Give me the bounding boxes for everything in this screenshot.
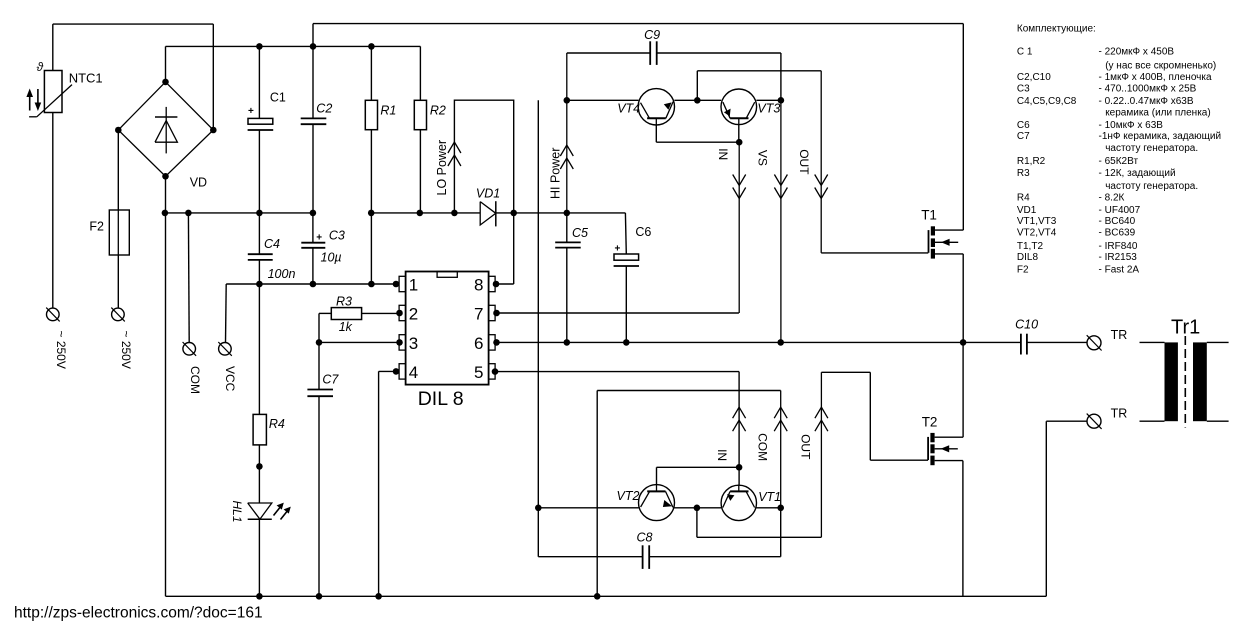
capacitor C10 bbox=[1021, 334, 1027, 355]
svg-text:- UF4007: - UF4007 bbox=[1099, 205, 1141, 216]
wire bottom rail bbox=[166, 595, 1047, 597]
wire C3 top lead bbox=[312, 213, 314, 243]
svg-text:+: + bbox=[248, 106, 254, 117]
svg-text:F2: F2 bbox=[1017, 264, 1029, 275]
svg-text:4: 4 bbox=[409, 363, 418, 382]
wire VD1 cathode rail bbox=[496, 212, 626, 214]
svg-text:1k: 1k bbox=[339, 320, 353, 334]
wire C4 top lead bbox=[258, 213, 260, 254]
node pin5 node bbox=[492, 368, 499, 375]
wire VD1 out to pin8 bbox=[495, 283, 514, 285]
svg-text:- IR2153: - IR2153 bbox=[1099, 252, 1138, 263]
svg-text:Комплектующие:: Комплектующие: bbox=[1017, 24, 1096, 35]
wire OUT bottom bus bbox=[697, 536, 822, 538]
node VT2 left node bbox=[535, 505, 542, 512]
wire T2 source wire bbox=[935, 460, 963, 462]
transistor VT2 bbox=[639, 485, 675, 521]
wire VCC rail bbox=[371, 212, 480, 214]
node bridge bottom bbox=[162, 173, 169, 180]
wire C7 top lead bbox=[318, 342, 320, 389]
U1 pin 3 bbox=[399, 334, 418, 353]
wire R3 drop to pin3 node bbox=[318, 313, 320, 342]
svg-text:C8: C8 bbox=[637, 530, 653, 544]
wire bridge bottom lead bbox=[165, 176, 167, 213]
svg-text:керамика (или пленка): керамика (или пленка) bbox=[1105, 108, 1211, 119]
node VCC C4 tap bbox=[256, 281, 263, 288]
VS arrows bbox=[774, 175, 787, 199]
wire VT3 base drop bbox=[738, 125, 740, 142]
transistor VT3 bbox=[721, 89, 757, 125]
wire VCC node bus bbox=[226, 283, 399, 285]
svg-text:Tr1: Tr1 bbox=[1171, 317, 1200, 339]
wire COM terminal riser bbox=[187, 213, 190, 343]
node HV+ C1 tap bbox=[256, 43, 263, 50]
svg-text:1: 1 bbox=[409, 276, 418, 295]
wire pin3 wire bbox=[319, 341, 399, 343]
svg-text:+: + bbox=[615, 244, 621, 255]
svg-text:6: 6 bbox=[474, 334, 483, 353]
svg-text:8: 8 bbox=[474, 276, 483, 295]
node VCC R1 branch tap bbox=[368, 281, 375, 288]
svg-text:HL1: HL1 bbox=[230, 501, 244, 523]
svg-text:- Fast 2A: - Fast 2A bbox=[1099, 264, 1140, 275]
wire R4 bottom lead bbox=[258, 445, 260, 503]
svg-text:NTC1: NTC1 bbox=[69, 71, 103, 86]
svg-text:ϑ: ϑ bbox=[37, 60, 44, 74]
wire R1 to VCC node bbox=[370, 213, 372, 284]
wire pin4 link bbox=[379, 370, 400, 372]
svg-text:T2: T2 bbox=[922, 414, 938, 429]
node bridge right bbox=[210, 127, 217, 134]
node rail C5 tap bbox=[564, 210, 571, 217]
wire VT2-VT1 base link bbox=[657, 466, 740, 468]
capacitor C6 bbox=[614, 244, 639, 267]
node HV+ C2 tap bbox=[310, 43, 317, 50]
node rail HL1 tap bbox=[256, 593, 263, 600]
svg-text:- 1мкФ х 400В, пленочка: - 1мкФ х 400В, пленочка bbox=[1099, 72, 1212, 83]
wire C1 bottom lead bbox=[258, 130, 260, 213]
U1 pin 2 bbox=[399, 305, 418, 324]
U1 pin 4 bbox=[399, 363, 418, 382]
svg-text:- IRF840: - IRF840 bbox=[1099, 241, 1138, 252]
wire AC top link bbox=[53, 23, 214, 25]
svg-text:R2: R2 bbox=[430, 104, 446, 118]
svg-text:- 220мкФ х 450В: - 220мкФ х 450В bbox=[1099, 47, 1175, 58]
node VT2-VT1 mid node bbox=[694, 505, 701, 512]
wire R2 bottom lead bbox=[419, 130, 421, 213]
svg-text:VT4: VT4 bbox=[617, 102, 640, 116]
svg-text:R3: R3 bbox=[336, 294, 352, 308]
svg-text:C9: C9 bbox=[644, 28, 660, 42]
svg-text:DIL8: DIL8 bbox=[1017, 252, 1039, 263]
wire R3 left corner bbox=[319, 312, 331, 314]
resistor R3 bbox=[331, 308, 361, 320]
terminal X2 ~250V bbox=[111, 308, 125, 322]
diode VD1 bbox=[480, 201, 496, 226]
terminal TR upper bbox=[1087, 335, 1102, 350]
OUT arrows upper bbox=[815, 175, 828, 199]
wire R1 top lead bbox=[370, 46, 372, 100]
wire F2 bottom lead bbox=[117, 255, 119, 308]
wire C4 bottom lead bbox=[258, 260, 260, 284]
svg-text:частоту генератора.: частоту генератора. bbox=[1105, 143, 1198, 154]
wire pin5 IN drop bbox=[738, 372, 740, 485]
wire pin6 bus bbox=[495, 341, 1021, 343]
resistor R4 bbox=[253, 414, 266, 445]
svg-text:VD: VD bbox=[190, 176, 207, 190]
wire OUT line lower bbox=[820, 372, 822, 537]
node VS top node bbox=[778, 97, 785, 104]
svg-text:С7: С7 bbox=[1017, 131, 1030, 142]
wire top bus right drop bbox=[962, 24, 964, 231]
svg-text:7: 7 bbox=[474, 305, 483, 324]
svg-text:- 8.2К: - 8.2К bbox=[1099, 192, 1125, 203]
svg-text:- 0.22..0.47мкФ х63В: - 0.22..0.47мкФ х63В bbox=[1099, 96, 1194, 107]
node rail C2-C3 tap bbox=[310, 210, 317, 217]
svg-text:OUT: OUT bbox=[798, 434, 812, 460]
node IN top node bbox=[736, 139, 743, 146]
terminal COM bbox=[183, 342, 197, 356]
node pin6 C6 tap bbox=[623, 339, 630, 346]
svg-text:C4: C4 bbox=[264, 237, 280, 251]
svg-text:LO Power: LO Power bbox=[435, 140, 449, 196]
svg-text:- BC639: - BC639 bbox=[1099, 228, 1136, 239]
wire VT2-VT1 link bbox=[674, 507, 721, 509]
svg-text:2: 2 bbox=[409, 305, 418, 324]
svg-text:3: 3 bbox=[409, 334, 418, 353]
svg-text:VCC: VCC bbox=[223, 366, 237, 392]
wire C9 left wire bbox=[567, 52, 650, 54]
wire C6 bottom lead bbox=[625, 266, 627, 342]
node IN lower node bbox=[736, 464, 743, 471]
wire C7 bottom lead bbox=[318, 396, 320, 596]
svg-text:R4: R4 bbox=[1017, 192, 1030, 203]
svg-text:IN: IN bbox=[715, 449, 729, 461]
wire C6 top corner bbox=[624, 213, 627, 254]
svg-text:VT2,VT4: VT2,VT4 bbox=[1017, 228, 1057, 239]
svg-text:C6: C6 bbox=[635, 225, 651, 239]
svg-text:С2,С10: С2,С10 bbox=[1017, 72, 1051, 83]
wire mid to OUT drop bbox=[696, 508, 698, 538]
wire NTC1 top lead bbox=[52, 24, 54, 70]
node pin4 node bbox=[393, 368, 400, 375]
svg-text:+: + bbox=[316, 232, 322, 243]
U1 pin 5 bbox=[474, 363, 495, 382]
svg-text:T1,T2: T1,T2 bbox=[1017, 241, 1044, 252]
wire COM link bus bbox=[597, 390, 781, 392]
wire C5 top lead bbox=[566, 213, 568, 243]
wire T2 drain riser bbox=[962, 342, 964, 437]
svg-text:C7: C7 bbox=[322, 373, 339, 387]
svg-text:C3: C3 bbox=[329, 228, 345, 242]
thermistor NTC1 bbox=[29, 60, 72, 117]
node VCC C3 tap bbox=[310, 281, 317, 288]
wire F2 top lead bbox=[117, 130, 119, 210]
svg-text:OUT: OUT bbox=[797, 149, 811, 175]
wire mid to OUT riser bbox=[696, 71, 698, 101]
svg-text:С 1: С 1 bbox=[1017, 47, 1033, 58]
wire T2 gate wire bbox=[870, 459, 928, 461]
node pin6 C5 tap bbox=[564, 339, 571, 346]
wire IN line upper bbox=[738, 142, 740, 313]
wire T1 drain wire bbox=[935, 229, 963, 231]
svg-text:(у нас все скромненько): (у нас все скромненько) bbox=[1105, 60, 1216, 71]
node VT1 right node bbox=[777, 505, 784, 512]
svg-text:R4: R4 bbox=[269, 417, 285, 431]
node VT4-VT3 mid node bbox=[694, 97, 701, 104]
wire VT4-VT3 link bbox=[674, 99, 721, 101]
capacitor C3 bbox=[301, 232, 325, 247]
node pin8 node bbox=[493, 281, 500, 288]
node R4-HL1 node bbox=[256, 463, 263, 470]
wire VT3 right wire bbox=[756, 99, 781, 101]
capacitor C1 bbox=[248, 106, 274, 130]
node half-bridge mid node bbox=[960, 339, 967, 346]
wire T2 drain wire bbox=[935, 436, 964, 438]
wire C1 top lead bbox=[258, 46, 260, 118]
capacitor C7 bbox=[307, 390, 333, 397]
svg-text:http://zps-electronics.com/?do: http://zps-electronics.com/?doc=161 bbox=[14, 605, 263, 622]
node rail C1-C4 tap bbox=[256, 210, 263, 217]
svg-text:С6: С6 bbox=[1017, 120, 1030, 131]
node pin1 node bbox=[393, 281, 400, 288]
wire OUT line upper bbox=[820, 71, 822, 253]
resistor R1 bbox=[365, 100, 377, 129]
svg-text:C2: C2 bbox=[316, 102, 332, 116]
node HV+ R1 tap bbox=[368, 43, 375, 50]
svg-text:5: 5 bbox=[474, 363, 483, 382]
transistor VT1 bbox=[721, 485, 756, 521]
wire VT1 right wire bbox=[756, 507, 780, 509]
capacitor C5 bbox=[555, 242, 581, 247]
svg-text:С4,С5,С9,С8: С4,С5,С9,С8 bbox=[1017, 96, 1077, 107]
svg-text:C10: C10 bbox=[1015, 317, 1038, 331]
wire pin4 riser bbox=[378, 371, 380, 596]
wire COM link drop bbox=[596, 391, 598, 597]
terminal TR lower bbox=[1087, 414, 1102, 429]
wire C8 right wire bbox=[649, 556, 781, 558]
wire NTC1 bottom lead bbox=[52, 113, 54, 309]
wire bridge top riser bbox=[165, 46, 167, 82]
node rail C7 tap bbox=[316, 593, 323, 600]
wire C10 to TR1 wire bbox=[1027, 341, 1087, 343]
wire VT2 base riser bbox=[656, 467, 658, 484]
svg-text:R3: R3 bbox=[1017, 168, 1030, 179]
transistor VT4 bbox=[638, 89, 674, 125]
wire VT2 left wire bbox=[538, 507, 638, 509]
wire HV+ bus bbox=[166, 45, 421, 47]
resistor R2 bbox=[414, 100, 426, 129]
svg-text:HI Power: HI Power bbox=[549, 148, 563, 199]
wire R1 bottom lead bbox=[370, 130, 372, 213]
svg-text:частоту генератора.: частоту генератора. bbox=[1105, 181, 1198, 192]
IN arrows upper bbox=[733, 175, 746, 199]
U1 pin 7 bbox=[474, 305, 495, 324]
wire 0V rail left bbox=[165, 212, 313, 214]
svg-text:R1: R1 bbox=[380, 104, 396, 118]
svg-text:~ 250V: ~ 250V bbox=[119, 331, 133, 369]
parts list text bbox=[1017, 24, 1221, 276]
node rail bridge tap bbox=[162, 210, 169, 217]
node VCC rail R2 tap bbox=[417, 210, 424, 217]
node VCC rail LO tap bbox=[451, 210, 458, 217]
svg-text:- 470..1000мкФ х 25В: - 470..1000мкФ х 25В bbox=[1099, 84, 1197, 95]
fuse F2 bbox=[109, 210, 129, 255]
svg-text:T1: T1 bbox=[921, 208, 937, 223]
COM arrows lower bbox=[774, 407, 787, 431]
svg-text:10µ: 10µ bbox=[321, 250, 342, 264]
wire R3 right lead bbox=[362, 312, 400, 314]
wire OUT to T2 gate top bbox=[821, 371, 870, 373]
wire VS riser top bbox=[780, 53, 782, 100]
terminal X1 ~250V bbox=[46, 308, 60, 322]
capacitor C4 bbox=[248, 254, 273, 260]
node pin3 node bbox=[396, 339, 403, 346]
HI Power arrows bbox=[560, 145, 573, 169]
svg-text:VD1: VD1 bbox=[476, 187, 500, 201]
svg-text:- 10мкФ х 63В: - 10мкФ х 63В bbox=[1099, 120, 1164, 131]
node rail COM tap bbox=[185, 210, 192, 217]
capacitor C2 bbox=[301, 118, 327, 124]
svg-text:~ 250V: ~ 250V bbox=[54, 331, 68, 369]
svg-text:TR: TR bbox=[1111, 328, 1128, 342]
node bridge left bbox=[115, 127, 122, 134]
wire TR lower wire bbox=[1046, 420, 1087, 422]
wire VS line bbox=[780, 100, 782, 342]
wire C2 bottom lead bbox=[312, 124, 314, 213]
svg-text:COM: COM bbox=[755, 433, 769, 461]
wire VT4 base drop bbox=[655, 125, 657, 142]
node pin6 VS tap bbox=[777, 339, 784, 346]
bridge rectifier VD bbox=[118, 82, 213, 176]
wire OUT top bus bbox=[697, 70, 821, 72]
svg-text:C5: C5 bbox=[572, 226, 588, 240]
transistor T2 IRF840 bbox=[928, 433, 958, 465]
node VT4 C node bbox=[564, 97, 571, 104]
svg-text:VS: VS bbox=[756, 150, 770, 166]
U1 pin 8 bbox=[474, 276, 495, 295]
node R3-C7-pin3 node bbox=[316, 339, 323, 346]
svg-text:VD1: VD1 bbox=[1017, 205, 1037, 216]
NTC current arrow up bbox=[26, 89, 33, 111]
wire VT4-VT3 base link bbox=[656, 141, 739, 143]
wire LO loop long drop bbox=[537, 100, 539, 557]
node rail COM-link tap bbox=[594, 593, 601, 600]
svg-text:100n: 100n bbox=[268, 267, 296, 281]
node pin2 node bbox=[396, 310, 403, 317]
svg-text:C1: C1 bbox=[270, 91, 286, 105]
node VCC rail R1 tap bbox=[368, 210, 375, 217]
IN arrows lower bbox=[733, 407, 746, 431]
svg-text:R1,R2: R1,R2 bbox=[1017, 156, 1046, 167]
svg-text:TR: TR bbox=[1111, 406, 1128, 420]
capacitor C8 bbox=[643, 545, 650, 569]
svg-text:С3: С3 bbox=[1017, 84, 1030, 95]
svg-text:DIL 8: DIL 8 bbox=[418, 388, 464, 410]
svg-text:IN: IN bbox=[716, 148, 730, 160]
U1 pin 6 bbox=[474, 334, 495, 353]
wire HL1 bottom lead bbox=[258, 519, 260, 596]
wire R4 top lead bbox=[258, 284, 260, 414]
terminal VCC bbox=[218, 342, 232, 356]
wire C2 top lead bbox=[312, 46, 314, 118]
transistor T1 IRF840 bbox=[929, 226, 959, 258]
svg-text:VT3: VT3 bbox=[757, 102, 780, 116]
node rail pin4 tap bbox=[375, 593, 382, 600]
wire bridge right riser bbox=[212, 24, 214, 130]
svg-text:VT2: VT2 bbox=[617, 489, 640, 503]
wire C8 right riser bbox=[780, 508, 782, 557]
transformer Tr1 bbox=[1140, 336, 1229, 428]
node pin7 node bbox=[493, 310, 500, 317]
wire VCC terminal riser bbox=[225, 284, 228, 343]
wire R2 top lead bbox=[419, 46, 421, 100]
wire HV top bus bbox=[313, 23, 963, 25]
svg-text:- 12К, задающий: - 12К, задающий bbox=[1099, 168, 1176, 179]
wire T1 source wire bbox=[935, 253, 963, 255]
wire T1 gate wire bbox=[821, 252, 928, 254]
svg-text:F2: F2 bbox=[89, 219, 104, 233]
LO Power arrows bbox=[448, 142, 461, 166]
op-amp U1 DIL8 IR2153 body bbox=[406, 272, 489, 385]
wire C5 bottom lead bbox=[566, 248, 568, 343]
wire left border bbox=[165, 213, 167, 596]
wire pin5 bus bbox=[495, 371, 739, 373]
svg-text:VT1: VT1 bbox=[758, 490, 781, 504]
wire C2 to top bus riser bbox=[312, 24, 314, 47]
node pin6 node bbox=[493, 339, 500, 346]
node VD1 cathode node bbox=[510, 210, 517, 217]
wire T1 source drop bbox=[962, 254, 964, 343]
wire C8 left wire bbox=[538, 556, 642, 558]
wire T2 source drop bbox=[962, 461, 964, 597]
svg-text:- BC640: - BC640 bbox=[1099, 216, 1136, 227]
wire LO Power loop bbox=[454, 100, 513, 284]
wire C3 bottom lead bbox=[312, 248, 314, 284]
wire C9 right wire bbox=[657, 52, 781, 54]
wire pin7 bus bbox=[495, 312, 739, 314]
wire TR2 return riser bbox=[1045, 421, 1047, 596]
svg-text:COM: COM bbox=[188, 366, 202, 394]
svg-text:-1нФ керамика, задающий: -1нФ керамика, задающий bbox=[1099, 131, 1222, 142]
svg-text:- 65К2Вт: - 65К2Вт bbox=[1099, 156, 1139, 167]
U1 pin 1 bbox=[399, 276, 418, 295]
OUT arrows lower bbox=[815, 407, 828, 431]
LED HL1 bbox=[248, 503, 291, 520]
svg-text:VT1,VT3: VT1,VT3 bbox=[1017, 216, 1057, 227]
wire COM line lower bbox=[780, 391, 782, 508]
wire OUT to T2 gate drop bbox=[869, 372, 871, 460]
node bridge top bbox=[162, 79, 169, 86]
wire HI Power riser bbox=[566, 53, 568, 213]
wire VT4 left wire bbox=[567, 99, 639, 101]
NTC current arrow down bbox=[35, 89, 42, 111]
capacitor C9 bbox=[650, 41, 657, 65]
